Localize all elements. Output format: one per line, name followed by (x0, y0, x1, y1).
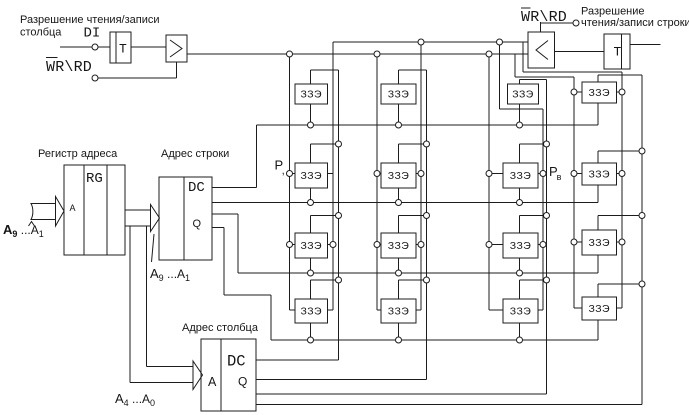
wire: DC1 out4 jog (224, 294, 271, 296)
leader line to A9...A1 label (152, 234, 155, 262)
wire: cell r2c3 top riser (519, 144, 521, 163)
net: y=72 line to column 4 right bit line (523, 71, 622, 73)
memory cell ZE row 1 col 4 (582, 82, 617, 103)
wire: cell r2c4 bottom to row line (597, 185, 599, 203)
junction: cell r2c2 right pin on L3 (418, 171, 424, 177)
svg-text:ЗЗЭ: ЗЗЭ (510, 306, 531, 318)
RG divider 1 (83, 165, 85, 255)
svg-text:Адрес строки: Адрес строки (161, 148, 229, 160)
wire: cell r3c3 top riser (519, 216, 521, 234)
svg-text:ЗЗЭ: ЗЗЭ (388, 170, 409, 182)
junction: cell r2c3 right pin on L3 (540, 171, 546, 177)
junction: cell r1c4 right pin on L3 (619, 89, 625, 95)
junction: cell r2c2 left pin on L1 (374, 171, 380, 177)
bus arrow: address input into RG (31, 204, 56, 220)
wire: cell r2c3 jog to column select (520, 143, 547, 145)
svg-text:ЗЗЭ: ЗЗЭ (512, 89, 533, 101)
svg-text:T: T (614, 45, 622, 60)
svg-text:DC: DC (188, 180, 205, 196)
bus: RG to row DC (top edge) (125, 209, 151, 211)
wire: cell r1c4 right pin (617, 91, 623, 93)
svg-text:DI: DI (84, 26, 101, 42)
junction: cell r2c3 on row line 2 (517, 200, 523, 206)
wire: T2 output (data out) (630, 44, 661, 46)
wire: cell r1c3 bottom to row line (519, 104, 521, 125)
junction: L1 col3 on enable line (486, 51, 492, 57)
wire: cell r3c2 bottom to row line (398, 258, 400, 273)
svg-text:RG: RG (86, 171, 103, 187)
wire: cell r2c2 left pin (377, 173, 381, 175)
junction: cell r3c4 left pin on L1 (571, 239, 577, 245)
junction: cell r3c1 left pin on L1 (287, 242, 293, 248)
junction: jog r4c4 on L4 (639, 281, 645, 287)
svg-text:ЗЗЭ: ЗЗЭ (301, 240, 322, 252)
wire: L3 bit line column 4 (x=622) (621, 72, 623, 308)
wire: cell r3c3 bottom to row line (519, 258, 521, 273)
net: y=77 line to column 4 left select line (515, 76, 574, 78)
svg-text:ЗЗЭ: ЗЗЭ (388, 89, 409, 101)
junction: jog r2c4 on L4 (639, 148, 645, 154)
wire: L3 bit line column 2 (420, 42, 422, 310)
svg-text:Регистр адреса: Регистр адреса (38, 148, 118, 160)
wire: cell r3c4 bottom to row line (597, 255, 599, 273)
svg-text:DC: DC (227, 353, 246, 371)
wire: cell r3c2 right pin (416, 244, 421, 246)
wire: cell r4c2 jog to column select (399, 279, 427, 281)
memory cell ZE row 3 col 1 (295, 233, 328, 258)
junction: cell r3c3 on row line 3 (517, 270, 523, 276)
wire: cell r3c4 right pin (617, 241, 623, 243)
junction: cell r4c3 on row line 4 (517, 337, 523, 343)
junction: cell r2c4 right pin on L3 (619, 171, 625, 177)
wire: cell r1c2 bottom to row line (398, 104, 400, 125)
wire: cell r1c4 jog to column select (598, 74, 642, 76)
junction: jog r2c1 on L4 (336, 141, 342, 147)
wire: cell r3c3 jog to column select (520, 215, 547, 217)
amplifier < (row) (528, 32, 555, 68)
wire: cell r1c3 top riser (519, 80, 521, 85)
trigger T2 double-edge line (621, 34, 623, 69)
wire: L1 select line column 3 (488, 54, 490, 310)
svg-text:ЗЗЭ: ЗЗЭ (301, 89, 322, 101)
junction: jog r3c4 on L4 (639, 213, 645, 219)
RG divider 2 (106, 165, 108, 255)
wire: cell r2c1 jog to column select (311, 143, 339, 145)
junction: cell r2c3 left pin on L1 (486, 171, 492, 177)
wire: cell r2c4 left pin (574, 173, 582, 175)
wire: cell r4c3 bottom to row line (519, 323, 521, 340)
svg-text:A: A (208, 375, 217, 389)
wire: L3 col3 drop from write line (499, 42, 501, 109)
overline over W (right WR\RD) (521, 7, 531, 9)
wire: L1 col3 into row4 cell left pin (489, 309, 503, 311)
wire: row4 cell right pin to L3 col4 (617, 307, 623, 309)
wire: cell r3c1 bottom to row line (310, 258, 312, 273)
amplifier > (column) (166, 35, 187, 62)
wire: DC1 out4 drop 1 (223, 228, 225, 296)
svg-text:Pв: Pв (549, 164, 562, 182)
wire: cell r3c4 left pin (574, 241, 582, 243)
wire: cell r4c1 top riser (310, 280, 312, 299)
wire: row4 cell right pin to L3 col3 (538, 309, 543, 311)
svg-text:ЗЗЭ: ЗЗЭ (589, 169, 610, 181)
wire: cell r2c4 top riser (597, 151, 599, 163)
memory cell ZE row 4 col 1 (295, 299, 328, 323)
wire: L4 column select line col 1 (338, 70, 340, 360)
bus: to column DC (bottom edge) (130, 382, 193, 384)
wire: cell r3c1 top riser (310, 216, 312, 234)
wire: cell r2c1 right pin (328, 173, 334, 175)
wire: cell r3c3 right pin (538, 244, 543, 246)
wire: cell r3c4 top riser (597, 216, 599, 231)
junction: cell r1c4 left pin on L1 (571, 89, 577, 95)
svg-text:A9 ...A1: A9 ...A1 (3, 222, 44, 239)
wire: cell r3c1 left pin (290, 244, 296, 246)
wire: cell r4c3 jog to column select (520, 279, 547, 281)
junction: cell r3c1 on row line 3 (308, 270, 314, 276)
svg-text:A: A (70, 203, 76, 213)
svg-text:WR\RD: WR\RD (521, 9, 567, 26)
svg-text:ЗЗЭ: ЗЗЭ (388, 240, 409, 252)
wire: row4 cell right pin to L3 col1 (328, 309, 334, 311)
wire: L4 column select line col 3 (546, 80, 548, 395)
column decoder DC2 (201, 339, 256, 411)
wire: cell r2c4 jog to column select (598, 150, 642, 152)
wire: cell r2c1 left pin (290, 173, 296, 175)
node: WR\RD input (left) (92, 75, 98, 81)
wire: cell r1c4 left pin (574, 91, 582, 93)
net: write line y=42 (to < block) (333, 41, 528, 43)
net: row select line 4 (y=340) (271, 339, 598, 341)
wire: cell r1c2 top riser (398, 70, 400, 84)
wire: DC1 output 1 (212, 187, 257, 189)
wire: DC2 output 1 to column-1 select (256, 359, 339, 361)
node: DI input (92, 44, 98, 50)
wire: L1 col2 into row4 cell left pin (377, 309, 381, 311)
junction: jog r3c3 on L4 (544, 213, 550, 219)
net: row select line 2 (y=202.5) (212, 202, 598, 204)
svg-text:Адрес столбца: Адрес столбца (182, 322, 259, 334)
junction: L1 col2 on enable line (374, 51, 380, 57)
wire: L4 column select line col 4 (641, 75, 643, 405)
trigger T2 (row data register) (604, 34, 630, 69)
wire: cell r4c1 bottom to row line (310, 323, 312, 340)
wire: WR\RD down to < block top (540, 22, 542, 32)
memory cell ZE row 2 col 4 (582, 163, 617, 185)
svg-text:WR\RD: WR\RD (46, 59, 92, 76)
bus: RG to row DC (bottom edge) (125, 225, 151, 227)
svg-text:чтения/записи строки: чтения/записи строки (581, 17, 689, 29)
junction: cell r1c1 on row line 1 (308, 122, 314, 128)
memory cell ZE row 3 col 4 (582, 230, 617, 255)
bus width tick over A9...A1 label (29, 222, 35, 227)
junction: cell r3c1 right pin on L3 (330, 242, 336, 248)
wire: DC1 output 3 (212, 213, 238, 215)
junction: cell r2c2 on row line 2 (396, 200, 402, 206)
net: row select line 3 (y=273) (238, 272, 598, 274)
wire: cell r1c1 bottom to row line (310, 104, 312, 125)
wire: < amplifier to trigger T2 (555, 51, 605, 53)
wire: cell r2c3 left pin (489, 173, 503, 175)
wire: cell r3c2 left pin (377, 244, 381, 246)
wire: cell r4c4 top riser (597, 284, 599, 297)
wire: WR\RD to amplifier bottom (98, 77, 177, 79)
junction: cell r1c2 on row line 1 (396, 122, 402, 128)
wire: cell r2c2 right pin (416, 173, 421, 175)
svg-text:Q: Q (193, 218, 202, 230)
wire: cell r2c2 bottom to row line (398, 188, 400, 203)
wire: cell r1c3 jog to column select (520, 79, 547, 81)
wire: DI node to trigger T1 (98, 46, 110, 48)
wire: cell r3c2 jog to column select (399, 215, 427, 217)
svg-text:Q: Q (238, 375, 247, 389)
junction: jog r3c2 on L4 (424, 213, 430, 219)
junction: jog r4c3 on L4 (544, 277, 550, 283)
net: row select line 1 (y=125) (257, 124, 599, 126)
wire: DC2 output 2 to column-2 select (256, 379, 427, 381)
memory cell ZE row 2 col 3 (503, 163, 538, 188)
wire: cell r1c1 top riser (310, 70, 312, 84)
junction: cell r3c4 right pin on L3 (619, 239, 625, 245)
wire: cell r3c1 right pin (328, 244, 334, 246)
svg-text:ЗЗЭ: ЗЗЭ (510, 240, 531, 252)
wire: up into amplifier > bottom (176, 62, 178, 78)
wire: L3 bit line column 1 (x=333) (332, 42, 334, 310)
wire: row4 cell right pin to L3 col2 (416, 309, 421, 311)
memory cell ZE row 1 col 3 (508, 84, 539, 104)
wire: L1 col1 into row4 cell left pin (290, 309, 296, 311)
wire: cell r1c2 jog to column select (399, 69, 427, 71)
svg-text:ЗЗЭ: ЗЗЭ (388, 306, 409, 318)
junction: cell r4c2 on row line 4 (396, 337, 402, 343)
junction: jog r4c1 on L4 (336, 277, 342, 283)
junction: cell r1c3 on row line 1 (517, 122, 523, 128)
memory cell ZE row 3 col 3 (503, 233, 538, 258)
wire: cell r1c1 jog to column select (311, 69, 339, 71)
wire: DC1 out3 drop (237, 214, 239, 273)
trigger T1 double-edge line (115, 32, 117, 63)
wire: cell r1c4 top riser (597, 75, 599, 82)
junction: L3 col3 on write line (497, 39, 503, 45)
junction: cell r2c1 on row line 2 (308, 200, 314, 206)
bus: to column DC (top edge) (147, 366, 194, 368)
junction: cell r4c1 on row line 4 (308, 337, 314, 343)
wire: cell r2c1 top riser (310, 144, 312, 163)
wire: T1 to write amplifier (131, 46, 166, 48)
wire: cell r4c2 bottom to row line (398, 323, 400, 340)
svg-text:ЗЗЭ: ЗЗЭ (510, 170, 531, 182)
bus arrow head into row DC (151, 205, 160, 232)
wire: DC1 out1 riser (256, 125, 258, 188)
wire: cell r2c2 jog to column select (399, 143, 427, 145)
junction: cell r3c2 on row line 3 (396, 270, 402, 276)
memory cell ZE row 2 col 1 (295, 163, 328, 188)
junction: L3 col2 on write line (418, 39, 424, 45)
wire: DC1 out4 drop 2 (270, 295, 272, 340)
wire: cell r1c4 bottom to row line (597, 103, 599, 125)
wire: DI input to node (60, 46, 92, 48)
bus: branch down to column DC (right edge) (146, 226, 148, 367)
junction: cell r3c2 right pin on L3 (418, 242, 424, 248)
node: row read/write enable (573, 20, 579, 26)
wire: L3 col3 dogleg (500, 108, 544, 110)
wire: L1 select line column 4 (x=574) (573, 77, 575, 308)
wire: L1 select line column 1 (289, 54, 291, 310)
wire: cell r2c2 top riser (398, 144, 400, 163)
svg-text:Разрешение чтения/записи: Разрешение чтения/записи (20, 14, 159, 26)
overline over W (left WR\RD) (46, 57, 58, 59)
wire: DC1 output 4 (212, 227, 224, 229)
svg-text:ЗЗЭ: ЗЗЭ (301, 306, 322, 318)
wire: WR\RD node link (541, 22, 574, 24)
register RG (64, 165, 125, 255)
DC1 divider (183, 177, 185, 260)
wire: cell r4c4 jog to column select (598, 283, 642, 285)
wire: L3 bit line column 3 (542, 109, 544, 310)
memory cell ZE row 4 col 2 (381, 299, 416, 323)
wire: cell r4c2 top riser (398, 280, 400, 299)
bus: branch down to column DC (left edge) (129, 226, 131, 383)
wire: cell r4c4 bottom to row line (597, 320, 599, 340)
wire: drop from write line to y=72 line (522, 42, 524, 72)
svg-text:ЗЗЭ: ЗЗЭ (589, 87, 610, 99)
junction: cell r2c4 left pin on L1 (571, 171, 577, 177)
wire: DC2 output 3 to column-3 select (256, 393, 547, 395)
wire: cell r3c1 jog to column select (311, 215, 339, 217)
memory cell ZE row 1 col 1 (295, 84, 328, 104)
memory cell ZE row 2 col 2 (381, 163, 416, 188)
junction: jog r2c2 on L4 (424, 141, 430, 147)
wire: cell r4c3 top riser (519, 280, 521, 299)
junction: L1 col1 on enable line (287, 51, 293, 57)
wire: cell r2c1 bottom to row line (310, 188, 312, 203)
row decoder DC1 (159, 177, 212, 260)
DC2 divider (220, 339, 222, 411)
junction: cell r3c3 left pin on L1 (486, 242, 492, 248)
memory cell ZE row 3 col 2 (381, 233, 416, 258)
amplifier < chevron (536, 41, 548, 60)
junction: cell r3c2 left pin on L1 (374, 242, 380, 248)
svg-text:ЗЗЭ: ЗЗЭ (589, 303, 610, 315)
wire: cell r3c4 jog to column select (598, 215, 642, 217)
svg-text:Разрешение: Разрешение (581, 6, 645, 18)
bus arrow head into column DC (193, 361, 203, 390)
svg-text:T: T (119, 42, 127, 57)
svg-text:A4 ...A0: A4 ...A0 (115, 391, 155, 408)
wire: L1 col4 into row4 cell left pin (574, 307, 582, 309)
wire: cell r4c1 jog to column select (311, 279, 339, 281)
memory cell ZE row 4 col 4 (582, 297, 617, 320)
net: column enable line y=54 (> output to < block) (187, 53, 528, 55)
wire: cell r2c3 right pin (538, 173, 543, 175)
svg-text:ЗЗЭ: ЗЗЭ (589, 237, 610, 249)
wire: cell r2c3 bottom to row line (519, 188, 521, 203)
memory cell ZE row 1 col 2 (381, 84, 416, 104)
wire: L1 select line column 2 (376, 54, 378, 310)
wire: drop from enable line to y=77 line (514, 54, 516, 77)
wire: cell r3c3 left pin (489, 244, 503, 246)
memory cell ZE row 4 col 3 (503, 299, 538, 323)
wire: DC2 output 4 to column-4 select (256, 404, 642, 406)
amplifier > chevron (170, 40, 182, 57)
junction: cell r2c1 left pin on L1 (287, 171, 293, 177)
svg-text:ЗЗЭ: ЗЗЭ (301, 170, 322, 182)
svg-text:столбца: столбца (20, 27, 62, 39)
svg-text:P,: P, (275, 158, 285, 178)
wire: cell r3c2 top riser (398, 216, 400, 234)
junction: jog r2c3 on L4 (544, 141, 550, 147)
svg-text:A9 ...A1: A9 ...A1 (150, 266, 190, 283)
junction: cell r3c3 right pin on L3 (540, 242, 546, 248)
junction: jog r4c2 on L4 (424, 277, 430, 283)
junction: jog r3c1 on L4 (336, 213, 342, 219)
wire: L4 column select line col 2 (426, 70, 428, 380)
trigger T1 (column data register) (110, 32, 131, 63)
wire: cell r2c4 right pin (617, 173, 623, 175)
